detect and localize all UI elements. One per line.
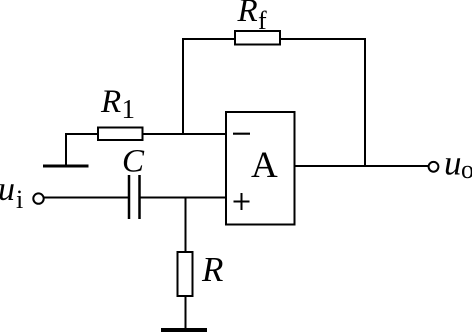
label ui	[0, 171, 23, 214]
wire: ground1 to R1	[66, 133, 98, 135]
inverting input marker -	[233, 133, 250, 135]
wire: R1 to inverting input (node junction with feedback)	[143, 133, 227, 135]
ground (bottom, at R)	[161, 328, 207, 332]
op-amp U1 (A)	[226, 112, 295, 225]
svg-text:f: f	[258, 6, 267, 35]
svg-text:1: 1	[122, 94, 136, 124]
wire: ground1 vertical drop	[65, 133, 67, 166]
label Rf	[237, 0, 268, 35]
svg-text:A: A	[251, 145, 278, 186]
svg-text:i: i	[16, 185, 23, 214]
wire: feedback top-left segment	[183, 38, 235, 40]
wire: input to capacitor	[44, 197, 128, 199]
svg-text:u: u	[444, 144, 462, 183]
svg-text:o: o	[461, 155, 472, 184]
wire: capacitor to non-inverting input (node junction with R)	[141, 197, 227, 199]
svg-text:u: u	[0, 171, 15, 208]
label uo	[444, 144, 472, 185]
wire: op-amp output to terminal	[295, 165, 428, 167]
terminal: input ui	[33, 193, 43, 203]
non-inverting input marker +	[234, 193, 250, 210]
svg-text:C: C	[122, 144, 145, 180]
resistor Rf	[235, 31, 280, 45]
wire: feedback right vertical (to output node)	[364, 38, 366, 167]
resistor R	[178, 252, 193, 296]
terminal: output uo	[429, 162, 439, 172]
label R1	[100, 84, 135, 124]
ground (left, at R1)	[43, 165, 89, 168]
svg-text:R: R	[201, 250, 223, 289]
wire: feedback left vertical (to inverting input node)	[182, 38, 184, 135]
svg-text:R: R	[100, 84, 121, 120]
wire: resistor R to ground	[185, 296, 187, 329]
resistor R1	[98, 128, 143, 141]
capacitor C	[129, 175, 140, 219]
wire: feedback top-right segment	[280, 38, 365, 40]
wire: node to resistor R	[185, 197, 187, 253]
svg-text:R: R	[237, 0, 258, 29]
